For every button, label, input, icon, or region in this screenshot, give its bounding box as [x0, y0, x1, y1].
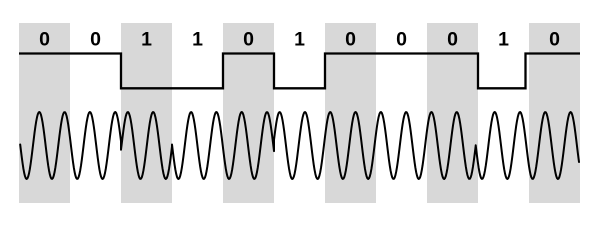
NRZ square wave [19, 54, 580, 89]
svg-text:1: 1 [141, 28, 152, 50]
shaded bit cell 9 [427, 23, 478, 203]
svg-text:0: 0 [90, 28, 101, 50]
shaded bit cell 11 [529, 23, 580, 203]
shaded bit cell 1 [19, 23, 70, 203]
shaded bit cell 7 [325, 23, 376, 203]
svg-text:1: 1 [294, 28, 305, 50]
svg-text:0: 0 [447, 28, 458, 50]
svg-text:0: 0 [345, 28, 356, 50]
svg-text:0: 0 [549, 28, 560, 50]
carrier sine wave with phase shifts [20, 112, 579, 179]
svg-text:0: 0 [243, 28, 254, 50]
svg-text:1: 1 [498, 28, 509, 50]
shaded bit cell 5 [223, 23, 274, 203]
svg-text:1: 1 [192, 28, 203, 50]
svg-text:0: 0 [39, 28, 50, 50]
shaded bit cell 3 [121, 23, 172, 203]
svg-text:0: 0 [396, 28, 407, 50]
